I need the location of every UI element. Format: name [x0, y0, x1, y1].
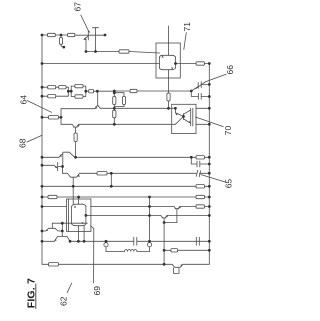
leader 70 — [196, 117, 224, 127]
box69 verticals below — [78, 226, 80, 242]
junction dot (42,186.3) — [41, 185, 44, 188]
transistor pair inside box70 — [174, 108, 176, 113]
junction dot (209.3,197) — [208, 196, 211, 199]
junction dot (70,241.3) — [69, 240, 72, 243]
junction dot (61,35) — [60, 34, 63, 37]
junction dot (42,157.3) — [41, 156, 44, 159]
transistor Q124 — [61, 117, 72, 124]
junction dot (86,51.5) — [85, 50, 88, 53]
junction dot (164.1,222.5) — [163, 221, 166, 224]
junction dot (209.3,84.4) — [208, 83, 211, 86]
wire rail y=241.3 — [42, 240, 55, 242]
junction dot (175.5,63.5) — [174, 62, 177, 65]
resistor R133 vertical — [74, 133, 77, 142]
wire right bus x=209.3 — [208, 64, 210, 265]
junction dot (191.3,91) — [190, 90, 193, 93]
junction dot (209.3,173.3) — [208, 172, 211, 175]
wire rail y=35 top — [42, 34, 48, 36]
wire rail y=264.3 bottom — [42, 263, 49, 265]
wire rail y=124.3 — [79, 123, 171, 125]
transistor Q67 — [75, 34, 89, 36]
leader 71 — [184, 33, 187, 50]
wire y250 loop — [164, 249, 171, 251]
svg-text:70: 70 — [223, 125, 233, 135]
resistor R-top-2 — [68, 33, 75, 36]
junction dot (149.5,206.5) — [148, 205, 151, 208]
junction dot (114.3,92.7) — [113, 91, 116, 94]
svg-text:68: 68 — [17, 138, 27, 148]
vertical x62.3 — [61, 223, 63, 236]
capacitor C241r — [196, 237, 199, 245]
transistor T2 — [42, 164, 54, 166]
resistor Rout — [89, 90, 94, 93]
wire rail y=222.5 segments — [164, 222, 177, 224]
terminal circle B — [147, 243, 151, 247]
junction dot (42,231) — [41, 230, 44, 233]
leader 67 — [81, 15, 90, 32]
capacitor C157 — [191, 157, 197, 164]
transistor Tbot — [172, 264, 183, 267]
junction dot (105,35) — [104, 34, 107, 37]
wire rail y=63.5 — [42, 63, 159, 65]
leader 68 — [27, 135, 42, 142]
junction dot (97.3,91.2) node base Qe — [96, 90, 99, 93]
capacitor C66b — [191, 91, 198, 96]
transistor B1 — [174, 207, 176, 209]
junction dot (209.3,108.3) — [208, 107, 211, 110]
junction dot (42,87.2) — [41, 86, 44, 89]
junction dot (42,35) — [41, 34, 44, 37]
resistor network rows y87/y96 — [42, 86, 48, 88]
node join x68.3 — [67, 87, 69, 96]
junction dot (42,96.2) — [41, 95, 44, 98]
wire box71 bottom lead — [168, 70, 170, 93]
junction dot (78.6,197) — [77, 196, 80, 199]
junction dot (111.3,186.3) — [110, 185, 113, 188]
junction dot (75.6,157.3) — [74, 156, 77, 159]
box 71 — [156, 43, 180, 78]
junction dot (68.3,91.2) — [67, 90, 70, 93]
junction dot (209.3,63.5) — [208, 62, 211, 65]
resistor Rmid — [130, 89, 137, 92]
svg-text:FIG. 7: FIG. 7 — [25, 278, 37, 308]
junction dot (62.3,231) — [61, 230, 64, 233]
wire left bus x=42 — [41, 35, 43, 264]
junction dot (42,241.3) — [41, 240, 44, 243]
leader 66 — [196, 74, 226, 88]
capacitor C241 — [134, 237, 137, 245]
junction dot (42,165.3) — [41, 164, 44, 167]
leader 62 — [67, 283, 72, 293]
svg-text:67: 67 — [73, 2, 83, 12]
junction dot (42,197) — [41, 196, 44, 199]
junction dot (149.5,197) — [148, 196, 151, 199]
inductor L — [106, 251, 125, 253]
resistor R63 right — [196, 62, 205, 65]
junction dot (209.3,124.3) — [208, 123, 211, 126]
box 69 — [67, 199, 91, 231]
wire rail y=186.3 — [42, 185, 196, 187]
wire rail y=206.5 right — [91, 206, 175, 208]
junction dot (62.5,166.5) — [61, 165, 64, 168]
underline FIG7 — [35, 284, 37, 309]
junction dot (42,117.3) — [41, 116, 44, 119]
vertical x94 leader69 wire — [91, 226, 94, 229]
svg-text:65: 65 — [224, 179, 234, 189]
junction dot (71.2,91.2) — [70, 90, 73, 93]
parallel pair — [70, 86, 72, 96]
junction dot (168.5,108.3) — [167, 107, 170, 110]
wire T232 base — [52, 222, 87, 224]
trimmer capacitor 66 — [191, 87, 198, 91]
junction dot (209.3,186.3) — [208, 185, 211, 188]
box69 verticals above — [72, 177, 74, 204]
svg-text:66: 66 — [225, 65, 235, 75]
wire rail y=215.5 — [91, 215, 161, 217]
resistor R71b vertical — [167, 93, 170, 101]
box70 inner double bar — [191, 108, 193, 126]
transistor T232 — [46, 228, 58, 231]
svg-text:71: 71 — [182, 22, 192, 32]
junction dot (106,241.3) — [105, 240, 108, 243]
leader 64 — [27, 101, 52, 113]
junction dot (209.3,164) — [208, 163, 211, 166]
transistor B2 — [161, 216, 163, 218]
box70 left ports — [172, 108, 176, 124]
R pair vertical at x114/x124 — [113, 91, 115, 97]
junction dot (111.3,173.3) — [110, 172, 113, 175]
junction dot (85.9,215.4) — [85, 214, 88, 217]
resistor Rchain2 — [113, 110, 116, 118]
wire box70 right exits — [196, 107, 209, 109]
wire y108.7 — [61, 108, 95, 110]
wire rail y=173.3 — [63, 173, 98, 177]
junction dot (114.3,91) — [113, 90, 116, 93]
junction dot (63.8,47.1) — [62, 46, 65, 49]
transistor pair inside box69 — [75, 204, 83, 226]
transistor T241 — [55, 236, 71, 241]
resistor R51 — [119, 50, 129, 53]
wire rail y=108.3 — [100, 107, 171, 109]
junction dot (114.3,124.3) — [113, 123, 116, 126]
capacitor C65 — [196, 170, 200, 177]
junction dot (85.8,91.2) — [84, 90, 87, 93]
junction dot (164.1,250.3) — [163, 249, 166, 252]
junction dot (209.3,206.5) — [208, 205, 211, 208]
junction dot (78.4,241.3) — [77, 240, 80, 243]
junction dot (84.1,241.3) — [83, 240, 86, 243]
terminal circle A — [104, 243, 108, 247]
resistor R-vert at x61 — [59, 38, 62, 45]
wire rail y=206.5 left — [42, 206, 67, 208]
junction dot (164.1,264.3) — [163, 263, 166, 266]
svg-text:62: 62 — [59, 296, 69, 306]
junction dot (62.3,223.2) — [61, 222, 64, 225]
junction dot (42,206.5) — [41, 205, 44, 208]
transistor Qe at rail108 — [97, 91, 99, 105]
junction dot (149.5,215.5) — [148, 214, 151, 217]
junction dot (191.3,157.3) — [190, 156, 193, 159]
wire rail y=51.5 — [86, 51, 119, 53]
junction dot (42,63.5) — [41, 62, 44, 65]
junction dot (209.3,250.3) — [208, 249, 211, 252]
vertical x149.5 — [149, 197, 151, 241]
resistor R-top-1 — [48, 33, 56, 36]
box 70 — [172, 104, 196, 133]
junction dot (183.5,116.5) — [182, 115, 185, 118]
junction dot (95.5,51.5) — [94, 50, 97, 53]
junction dot (175.4,108.3) — [174, 107, 177, 110]
leader 65 — [201, 175, 226, 183]
junction dot (114.3,108.3) — [113, 107, 116, 110]
svg-text:64: 64 — [19, 95, 29, 105]
wire rail y=197 — [42, 196, 48, 198]
junction dot (149.5,241.3) — [148, 240, 151, 243]
junction dot (61,117.3) — [60, 116, 63, 119]
junction dot (209.3,96.5) — [208, 95, 211, 98]
svg-text:69: 69 — [92, 286, 102, 296]
wire rail y=157.3 — [42, 156, 59, 158]
junction dot (209.3,241.3) — [208, 240, 211, 243]
capacitor C-top — [93, 27, 99, 29]
junction dot (73.2,186.3) — [72, 185, 75, 188]
resistor R64 — [42, 116, 49, 118]
junction dot (209.3,157.3) — [208, 156, 211, 159]
transistor T1 inline — [59, 154, 62, 157]
junction dot (209.3,215.5) — [208, 214, 211, 217]
